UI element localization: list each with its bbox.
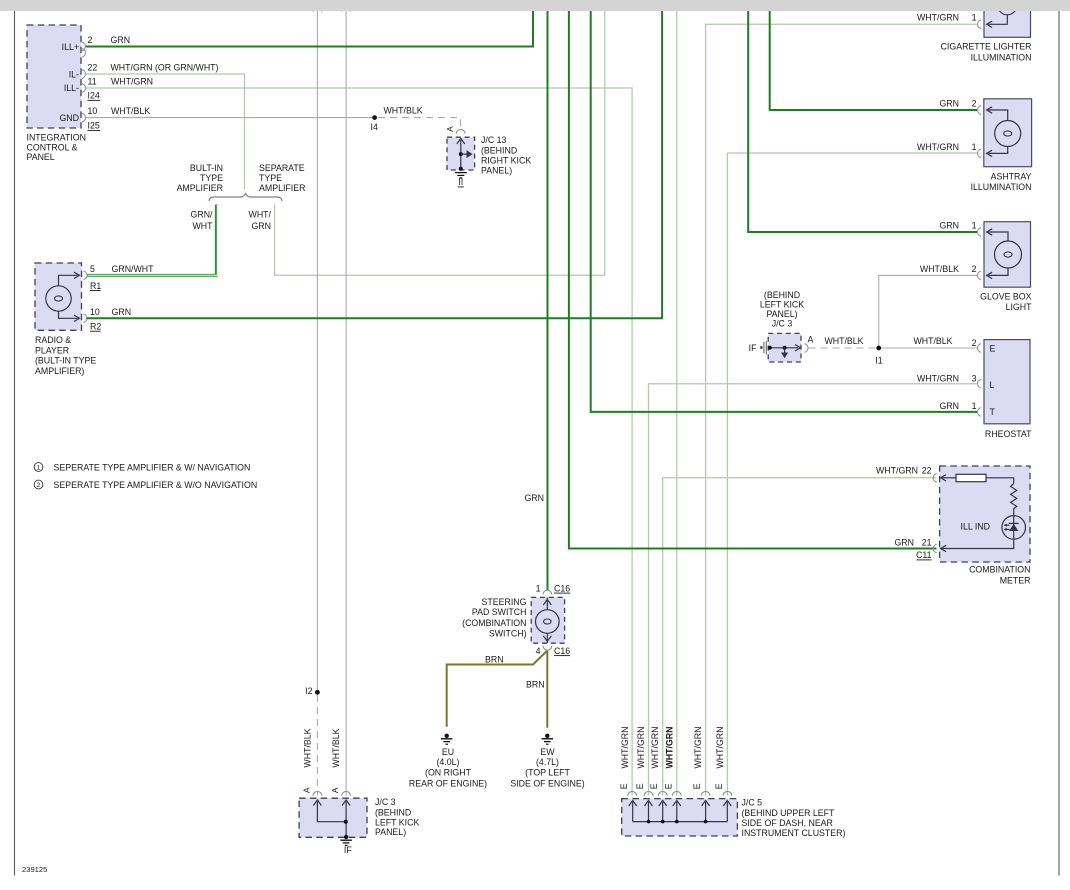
svg-text:EU: EU [442,747,454,757]
splice I4 dot [372,115,377,120]
connector R2 [90,322,101,332]
svg-text:I1: I1 [875,355,882,365]
ground IF below J/C3 left [340,840,351,845]
wire GRN rheostat pin 1 T from top edge [591,11,977,412]
J/C 3 right block (behind left kick panel) [768,333,801,362]
splice I1 dot [876,346,881,351]
svg-text:WHT/GRN: WHT/GRN [917,374,959,384]
wire GRN ashtray pin 2 from top edge [770,11,977,110]
glove box light block [984,222,1031,288]
wire WHT/BLK glove box pin 2 down to splice I1 [879,275,977,348]
svg-text:ILL-: ILL- [64,83,79,93]
wire WHT/BLK dashed from splice I2 down to J/C3 connector A [316,695,318,796]
svg-text:WHT/GRN (OR GRN/WHT): WHT/GRN (OR GRN/WHT) [111,63,219,73]
svg-text:239125: 239125 [22,865,47,874]
integration pin arc GND [82,113,85,122]
svg-text:AMPLIFIER: AMPLIFIER [177,183,223,193]
svg-text:ASHTRAY: ASHTRAY [991,171,1032,181]
svg-text:LEFT KICK: LEFT KICK [760,299,804,309]
svg-text:CONTROL &: CONTROL & [27,142,78,152]
svg-text:WHT/BLK: WHT/BLK [384,106,423,116]
svg-text:LIGHT: LIGHT [1006,302,1033,312]
top connector arc WHT/BLK line 2 [342,7,351,11]
svg-text:A: A [330,787,340,793]
connector I25 [88,121,101,131]
svg-text:(BEHIND: (BEHIND [375,808,411,818]
svg-text:22: 22 [922,465,932,475]
connector C11 [916,550,932,560]
wire BRN steering pad switch pin 4 down to ground EW [546,651,548,728]
caption J/C 13 [481,135,531,176]
steering pad switch block [531,597,564,643]
svg-text:WHT/GRN: WHT/GRN [111,77,153,87]
svg-text:CIGARETTE LIGHTER: CIGARETTE LIGHTER [941,42,1032,52]
wire WHT/BLK dashed from J/C3 connector A to splice I1 [809,347,877,349]
svg-text:2: 2 [972,338,977,348]
radio bulb symbol [46,286,71,311]
svg-text:T: T [990,407,996,417]
svg-text:(COMBINATION: (COMBINATION [462,618,526,628]
wire WHT/BLK splice I1 to rheostat pin 2 E [879,347,977,349]
svg-text:5: 5 [90,264,95,274]
radio internal wire to pin 5 [59,275,78,286]
svg-text:A: A [808,335,814,345]
svg-text:WHT/GRN: WHT/GRN [664,726,674,768]
connector I24 [88,91,101,101]
svg-text:II: II [458,177,463,187]
svg-text:SEPERATE TYPE AMPLIFIER & W/O: SEPERATE TYPE AMPLIFIER & W/O NAVIGATION [54,480,258,490]
svg-text:TYPE: TYPE [200,173,223,183]
svg-text:RADIO &: RADIO & [35,335,71,345]
right frame line [1058,11,1060,876]
wire GRN radio pin 10 R2 to top edge [86,11,662,318]
ground II below J/C13 [455,173,467,178]
svg-text:A: A [445,126,455,132]
pin number 4 steering + connector C16 [536,646,571,656]
svg-text:METER: METER [1000,575,1031,585]
svg-text:WHT/GRN: WHT/GRN [917,13,959,23]
svg-text:I2: I2 [305,686,312,696]
glove box pin arc 1 [978,228,981,237]
wire GRN glove box pin 1 from top edge [748,11,977,232]
integration pin arc ILL+ second [82,48,85,57]
zigzag resistor [1011,484,1017,516]
svg-text:1: 1 [972,13,977,23]
svg-text:GND: GND [59,113,79,123]
svg-text:GRN: GRN [894,538,914,548]
rotated wire labels WHT/GRN at J/C5 [620,726,725,768]
caption behind left kick panel J/C 3 [760,290,804,329]
cigarette lighter pin arc 1 [978,20,981,29]
rheostat pin arc 2 [978,344,981,353]
LED circle [1002,516,1026,540]
J/C 5 block [622,799,738,836]
note 1 [34,463,250,473]
ground EW symbol [542,734,553,745]
svg-text:(4.7L): (4.7L) [536,757,559,767]
wire GRN combination meter pin 21 from top edge [569,11,937,549]
svg-text:WHT/GRN: WHT/GRN [917,142,959,152]
wire WHT/GRN J/C5 line 4 from top edge [676,11,678,796]
svg-text:L: L [990,380,995,390]
J/C 3 right connector arc A [805,344,808,353]
svg-text:WHT/GRN: WHT/GRN [620,726,630,768]
svg-text:TYPE: TYPE [259,173,282,183]
IF tap symbol left of J/C3 right [760,341,766,354]
integration pin arc ILL+ [82,42,85,51]
wire WHT/BLK left vertical to splice I2 [316,11,318,690]
wire WHT/GRN ashtray pin 1 to J/C5 (line 6) [727,153,977,796]
svg-text:(ON RIGHT: (ON RIGHT [425,768,472,778]
svg-text:J/C 13: J/C 13 [481,135,507,145]
svg-text:ILL IND: ILL IND [961,522,991,532]
svg-text:BULT-IN: BULT-IN [190,163,223,173]
svg-text:(4.0L): (4.0L) [437,757,460,767]
J/C 13 connector arc A [456,129,465,133]
J/C 3 left block (behind left kick panel) [299,798,367,839]
svg-text:(BEHIND: (BEHIND [764,290,800,300]
svg-text:PANEL: PANEL [27,152,55,162]
svg-text:REAR OF ENGINE): REAR OF ENGINE) [409,778,487,788]
svg-text:RHEOSTAT: RHEOSTAT [985,429,1032,439]
svg-text:EW: EW [540,747,555,757]
caption glove box light [980,291,1032,312]
wire label WHT/GRN branch [249,209,272,231]
svg-text:ILL+: ILL+ [62,42,79,52]
svg-text:WHT/GRN: WHT/GRN [876,465,918,475]
svg-text:IF: IF [749,343,757,353]
svg-text:4: 4 [536,646,541,656]
svg-text:GRN: GRN [939,221,959,231]
svg-text:GRN: GRN [939,99,959,109]
svg-text:J/C 3: J/C 3 [772,318,793,328]
svg-text:WHT/BLK: WHT/BLK [913,336,952,346]
wire WHT/GRN cigarette lighter pin 1 to J/C5 (line 5) [706,24,977,795]
svg-text:SEPERATE TYPE AMPLIFIER & W/ N: SEPERATE TYPE AMPLIFIER & W/ NAVIGATION [54,463,251,473]
wire GRN/WHT radio pin 5 R1 to amplifier brace left branch [87,205,217,276]
svg-text:E: E [990,343,996,353]
svg-text:WHT/BLK: WHT/BLK [824,336,863,346]
integration pin arc IL- [82,70,85,79]
svg-text:J/C 5: J/C 5 [742,798,763,808]
svg-text:1: 1 [972,142,977,152]
svg-text:BRN: BRN [526,680,545,690]
wire WHT/GRN combination meter pin 22 to J/C5 (line 3) [663,478,937,796]
svg-text:SIDE OF ENGINE): SIDE OF ENGINE) [510,778,584,788]
svg-text:WHT/BLK: WHT/BLK [111,106,150,116]
svg-text:GRN: GRN [524,493,544,503]
svg-text:PANEL): PANEL) [375,827,406,837]
rheostat block [984,340,1030,424]
caption J/C 5 [742,798,846,838]
wire GRN from top edge to steering pad switch pin 1 [547,11,549,590]
wire WHT/BLK integration GND pin 10 to splice I4 [86,117,372,119]
radio pin arc 10 [84,314,87,323]
svg-text:WHT/GRN: WHT/GRN [693,726,703,768]
svg-text:E: E [663,783,673,789]
svg-text:GRN/: GRN/ [191,209,214,219]
combination meter block [940,466,1030,562]
svg-text:ILLUMINATION: ILLUMINATION [971,52,1032,62]
caption bult-in type amplifier [177,163,224,193]
svg-text:2: 2 [972,99,977,109]
svg-text:COMBINATION: COMBINATION [969,565,1030,575]
svg-text:PLAYER: PLAYER [35,345,69,355]
svg-text:SEPARATE: SEPARATE [259,163,305,173]
svg-text:A: A [301,787,311,793]
glove box pin arc 2 [978,271,981,280]
radio pin arc 5 [84,271,87,280]
svg-text:IF: IF [344,845,352,855]
svg-text:I25: I25 [88,121,100,131]
svg-text:C16: C16 [554,646,570,656]
svg-text:WHT/BLK: WHT/BLK [303,728,313,767]
integration pin arc ILL- [82,84,85,93]
integration control panel block [27,25,81,128]
svg-text:PANEL): PANEL) [481,166,512,176]
svg-text:INTEGRATION: INTEGRATION [27,133,86,143]
wire WHT/GRN separate-amplifier right branch from brace to top edge [275,11,605,275]
svg-text:GRN: GRN [251,221,271,231]
svg-text:R2: R2 [90,322,101,332]
svg-text:PANEL): PANEL) [766,309,797,319]
svg-text:1: 1 [972,401,977,411]
wire WHT/BLK right vertical down to J/C3 connector A [345,11,347,796]
svg-text:AMPLIFIER): AMPLIFIER) [35,366,84,376]
top connector arc WHT/BLK line 1 [313,7,322,11]
J/C 13 block [447,137,475,171]
svg-text:2: 2 [88,35,93,45]
svg-text:(TOP LEFT: (TOP LEFT [525,768,570,778]
connector R1 [90,281,101,291]
svg-text:(BULT-IN TYPE: (BULT-IN TYPE [35,356,96,366]
wire GRN integration ILL+ pin 2 to top edge [86,11,533,47]
pin number 1 steering + connector C16 [536,583,571,593]
rheostat pin arc 3 [978,379,981,388]
svg-text:GRN/WHT: GRN/WHT [112,264,155,274]
note 2 [34,480,257,490]
svg-text:GRN: GRN [111,35,131,45]
svg-text:I4: I4 [371,122,378,132]
svg-text:R1: R1 [90,281,101,291]
svg-text:WHT/BLK: WHT/BLK [920,264,959,274]
steering pad switch connector arc pin 4 [543,646,552,650]
svg-text:E: E [714,783,724,789]
wire BRN steering pad switch pin 4 to ground EU [447,651,548,727]
svg-text:E: E [619,783,629,789]
svg-text:WHT/GRN: WHT/GRN [715,726,725,768]
caption separate type amplifier [259,163,305,193]
svg-text:2: 2 [972,264,977,274]
splice I2 dot [315,690,320,695]
ashtray pin arc 1 [978,149,981,158]
left frame line [14,11,16,876]
svg-text:C16: C16 [554,583,570,593]
svg-text:E: E [635,783,645,789]
svg-text:WHT/GRN: WHT/GRN [636,726,646,768]
resistor box [956,474,986,481]
svg-text:(BEHIND: (BEHIND [481,146,517,156]
svg-text:GRN: GRN [112,307,132,317]
radio internal wire to pin 10 [59,311,78,318]
svg-text:WHT/: WHT/ [249,209,272,219]
svg-text:2: 2 [37,482,41,489]
caption ashtray illumination [971,171,1032,192]
svg-text:3: 3 [972,374,977,384]
caption integration control panel [27,133,86,163]
combination meter pin arc 21 [933,544,936,553]
svg-text:11: 11 [88,77,97,87]
svg-text:1: 1 [37,465,41,472]
svg-text:GRN: GRN [939,401,959,411]
ashtray pin arc 2 [978,106,981,115]
svg-text:STEERING: STEERING [482,597,527,607]
svg-text:WHT/BLK: WHT/BLK [331,728,341,767]
svg-text:21: 21 [922,538,932,548]
rheostat pin arc 1 [978,408,981,417]
rotated pin letters E at J/C5 [619,783,724,789]
svg-text:I24: I24 [88,91,100,101]
svg-text:22: 22 [88,63,98,73]
svg-text:WHT/GRN: WHT/GRN [650,726,660,768]
svg-text:LEFT KICK: LEFT KICK [375,818,419,828]
svg-text:(BEHIND UPPER LEFT: (BEHIND UPPER LEFT [742,808,835,818]
combination meter pin arc 22 [933,474,936,483]
svg-text:AMPLIFIER: AMPLIFIER [259,183,305,193]
svg-text:RIGHT KICK: RIGHT KICK [481,156,531,166]
wire WHT/GRN rheostat pin 3 L to J/C5 (line 2) [649,384,978,796]
cigarette lighter illumination block (cut off at top) [984,0,1031,37]
svg-text:INSTRUMENT CLUSTER): INSTRUMENT CLUSTER) [742,828,846,838]
caption J/C 3 left [375,797,419,837]
svg-text:SIDE OF DASH, NEAR: SIDE OF DASH, NEAR [742,818,833,828]
svg-text:GLOVE BOX: GLOVE BOX [980,291,1031,301]
svg-text:WHT: WHT [192,221,213,231]
J/C 3 left connector arc A (line 2) [342,791,351,795]
wire WHT/GRN from integration IL- pin 22 down to amplifier brace [86,74,245,190]
svg-text:J/C 3: J/C 3 [375,797,396,807]
svg-text:1: 1 [536,583,541,593]
ground caption EW [510,747,584,789]
svg-text:BRN: BRN [485,655,504,665]
ashtray illumination block [984,99,1032,167]
svg-text:E: E [649,783,659,789]
svg-text:PAD SWITCH: PAD SWITCH [472,607,527,617]
wire WHT/GRN from integration ILL- pin 11 to J/C5 (line 1) [86,88,632,796]
svg-text:1: 1 [972,221,977,231]
amplifier selection brace [209,194,282,201]
wire WHT/BLK dashed from splice I4 to J/C13 connector A [378,118,461,130]
internal wire pin 22 with left arrow [942,477,956,479]
svg-text:10: 10 [88,106,98,116]
wires layer [86,11,977,796]
J/C 3 left connector arc A (line 1) [313,791,322,795]
svg-text:E: E [692,783,702,789]
svg-text:SWITCH): SWITCH) [489,628,527,638]
svg-text:IL-: IL- [69,69,79,79]
connector II [458,177,464,187]
steering pad switch connector arc pin 1 [543,590,552,594]
caption radio and player [35,335,96,376]
ground caption EU [409,747,487,789]
wire label GRN/WHT branch [191,209,214,231]
caption combination meter [969,565,1030,586]
ground EU symbol [441,734,452,745]
J/C 5 connector arcs [628,791,732,795]
svg-text:C11: C11 [916,550,932,560]
radio and player block [35,263,82,330]
svg-text:ILLUMINATION: ILLUMINATION [971,182,1032,192]
top grey band [0,0,1070,11]
caption cigarette lighter illumination [941,42,1032,63]
caption steering pad switch [462,597,527,639]
svg-text:10: 10 [90,307,100,317]
